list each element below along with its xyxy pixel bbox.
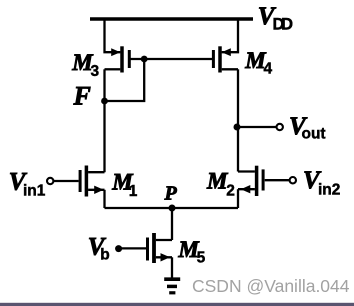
terminal: Vin2 open circle (290, 177, 296, 183)
svg-text:DD: DD (273, 16, 294, 34)
wire: node P down to M5 drain (171, 208, 173, 240)
wire: diode connection from gate node down-left to node F (105, 59, 145, 101)
VDD label (258, 3, 293, 34)
transistor M1 (NMOS input left) (80, 166, 104, 197)
svg-text:2: 2 (226, 182, 235, 199)
wire: M2 source down to tail node (237, 189, 239, 208)
svg-text:F: F (73, 82, 91, 111)
Vin1 label (9, 169, 46, 200)
Vout label (289, 113, 326, 143)
svg-text:1: 1 (129, 183, 138, 200)
wire: M4 drain down to output node (237, 69, 239, 127)
wire: VDD rail down to M3 source (105, 19, 121, 52)
wire: output node to Vout terminal (237, 126, 276, 128)
transistor M2 (NMOS input right) (238, 166, 263, 196)
Vin2 label (303, 167, 340, 198)
svg-text:4: 4 (264, 61, 273, 78)
terminal: Vin1 open circle (47, 178, 53, 184)
svg-text:b: b (100, 247, 109, 264)
node F junction dot (101, 98, 108, 105)
M4 label (244, 48, 272, 78)
terminal: Vb dot (115, 245, 122, 252)
wire: tail rail node P (105, 207, 239, 209)
power rail VDD (90, 17, 253, 21)
wire: Vb terminal to M5 gate (119, 247, 146, 249)
transistor M4 (PMOS mirror output) (213, 46, 238, 72)
node P junction dot (169, 205, 176, 212)
svg-text:3: 3 (91, 63, 100, 80)
transistor M5 (NMOS tail current source) (148, 233, 173, 263)
M5 label (177, 237, 205, 266)
M3 label (71, 50, 99, 80)
wire: output node down to M2 drain (237, 127, 239, 172)
wire: Vin1 terminal to M1 gate (53, 180, 78, 182)
Vb label (88, 234, 110, 264)
svg-text:in2: in2 (318, 181, 340, 198)
ground (164, 279, 180, 293)
wire: M3 drain down to node F (103, 69, 105, 101)
svg-text:in1: in1 (23, 182, 46, 199)
wire: gate bus M3 gate to M4 gate (131, 58, 213, 60)
terminal: Vout open circle (277, 124, 283, 130)
junction: M3 gate node (141, 56, 148, 63)
wire: M2 gate to Vin2 terminal (265, 179, 290, 181)
svg-text:CSDN @Vanilla.044: CSDN @Vanilla.044 (192, 276, 350, 296)
M1 label (111, 169, 138, 200)
svg-text:P: P (164, 183, 178, 205)
wire: M1 source down to tail node (103, 190, 105, 208)
wire: M5 source down to ground (171, 257, 173, 277)
svg-text:5: 5 (197, 249, 206, 266)
junction: output node dot (234, 124, 241, 131)
M2 label (206, 169, 235, 200)
wire: node F down to M1 drain (103, 101, 105, 172)
wire: VDD rail down to M4 source (222, 19, 238, 52)
transistor M3 (PMOS, diode-connected) (105, 46, 130, 72)
svg-text:out: out (302, 126, 326, 143)
bottom border bar (0, 303, 354, 306)
